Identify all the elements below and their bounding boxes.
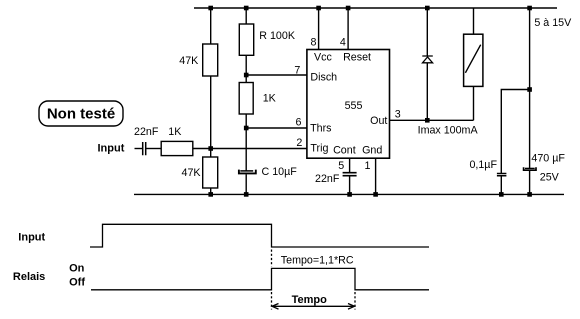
wire supply right vertical (529, 8, 531, 168)
svg-text:7: 7 (294, 64, 300, 76)
wire R100K to 1K (245, 55, 247, 82)
wire R100K branch from rail (245, 8, 247, 25)
wire ground rail (134, 193, 564, 195)
svg-text:Relais: Relais (13, 271, 45, 283)
svg-text:Thrs: Thrs (310, 123, 331, 135)
wire input stub (135, 148, 143, 150)
svg-text:3: 3 (395, 108, 401, 120)
node dot rail pin8 (316, 6, 321, 11)
wire pin5 cont lower (349, 176, 351, 194)
wire diode branch upper (426, 8, 428, 56)
svg-text:Tempo=1,1*RC: Tempo=1,1*RC (281, 255, 354, 267)
relay diagonal (465, 45, 480, 73)
svg-text:Non testé: Non testé (47, 106, 115, 123)
svg-text:On: On (69, 263, 85, 275)
svg-text:Input: Input (98, 143, 125, 155)
svg-text:470 µF: 470 µF (531, 153, 565, 165)
svg-text:Vcc: Vcc (314, 51, 332, 63)
wire relay to out line (473, 86, 475, 120)
capacitor 0.1uF (497, 174, 507, 176)
svg-text:2: 2 (296, 137, 302, 149)
wire top supply rail (194, 7, 557, 9)
dashed marker left lower (271, 292, 273, 310)
wire pin8 vcc (318, 8, 320, 50)
wire pin4 reset (347, 8, 349, 50)
node dot thrs junction (244, 126, 249, 131)
svg-text:Cont: Cont (333, 144, 356, 156)
svg-text:Input: Input (18, 231, 45, 243)
svg-text:1: 1 (365, 160, 371, 172)
wire pin7 disch (246, 74, 307, 76)
svg-text:Off: Off (69, 277, 85, 289)
resistor R 100K (239, 24, 253, 55)
svg-text:Gnd: Gnd (362, 144, 382, 156)
wire diode to out line (426, 63, 428, 121)
svg-text:5: 5 (338, 160, 344, 172)
wire cap to 1K resistor (146, 148, 161, 150)
svg-text:Tempo: Tempo (292, 294, 328, 306)
wire 47K upper branch from rail (210, 8, 212, 44)
dashed marker left upper (271, 250, 273, 267)
node dot gnd 470uF (527, 192, 532, 197)
node dot rail R100K (244, 6, 249, 11)
svg-text:0,1µF: 0,1µF (469, 159, 497, 171)
wire trig line to 555 pin2 (193, 148, 307, 150)
wire pin1 gnd (375, 158, 377, 194)
resistor 47K (lower) (203, 157, 218, 188)
svg-text:22nF: 22nF (134, 126, 159, 138)
wire 47K lower to ground rail (210, 188, 212, 194)
node dot corner 0.1uF branch (527, 87, 532, 92)
node dot gnd pin1 (373, 192, 378, 197)
resistor 1K (horizontal input) (161, 141, 193, 155)
dashed marker right lower (354, 292, 356, 310)
node dot gnd 0.1uF (499, 192, 504, 197)
svg-text:C 10µF: C 10µF (262, 166, 298, 178)
dimension arrow tempo (273, 305, 354, 307)
svg-text:4: 4 (340, 37, 346, 49)
svg-text:25V: 25V (540, 172, 560, 184)
node dot gnd cont (347, 192, 352, 197)
wire 470uF to ground (529, 171, 531, 194)
svg-text:8: 8 (310, 37, 316, 49)
svg-text:22nF: 22nF (315, 173, 340, 185)
timing diagram (90, 224, 429, 309)
wire corner to 0.1uF branch (501, 90, 529, 174)
wire cap C to ground rail (245, 174, 247, 194)
svg-text:Imax 100mA: Imax 100mA (418, 125, 479, 137)
svg-text:47K: 47K (179, 55, 199, 67)
waveform relais trace (91, 268, 429, 289)
capacitor 22nF series input (143, 142, 146, 155)
svg-text:47K: 47K (182, 167, 202, 179)
node dot gnd 47K (208, 192, 213, 197)
capacitor 22nF on cont (343, 173, 357, 176)
svg-text:Reset: Reset (343, 51, 371, 63)
node dot rail right corner (527, 6, 532, 11)
wire relay branch upper (473, 8, 475, 34)
svg-text:555: 555 (345, 100, 363, 112)
capacitor 470uF electrolytic (524, 167, 536, 170)
node dot trig junction (208, 146, 213, 151)
node dot rail pin4 (346, 6, 351, 11)
waveform input trace (90, 224, 429, 247)
diode D1 (422, 56, 433, 63)
wire pin6 thrs (246, 127, 307, 129)
relay K1 coil (464, 34, 483, 86)
svg-text:6: 6 (295, 116, 301, 128)
svg-text:R 100K: R 100K (259, 30, 296, 42)
svg-text:Trig: Trig (310, 143, 328, 155)
wire pin5 cont upper (349, 158, 351, 172)
node dot disch junction (244, 73, 249, 78)
svg-text:5 à 15V: 5 à 15V (534, 17, 572, 29)
svg-text:Disch: Disch (310, 71, 337, 83)
svg-text:Out: Out (370, 115, 387, 127)
node dot out diode junction (425, 118, 430, 123)
resistor 1K (vertical) (239, 83, 253, 115)
capacitor C 10uF (239, 170, 256, 174)
svg-text:1K: 1K (263, 93, 277, 105)
note box Non teste (39, 101, 123, 126)
node dot rail diode (425, 6, 430, 11)
svg-text:1K: 1K (168, 126, 182, 138)
wire 0.1uF to ground (500, 176, 502, 194)
node dot gnd capC (244, 192, 249, 197)
wire 47K upper to trig line (210, 76, 212, 157)
node dot rail 47K (208, 6, 213, 11)
wire pin3 out (390, 119, 474, 121)
resistor 47K (upper) (203, 44, 218, 76)
wire 1K down through thrs node to cap C (245, 114, 247, 171)
op-amp 555 IC box U1 (307, 50, 390, 159)
